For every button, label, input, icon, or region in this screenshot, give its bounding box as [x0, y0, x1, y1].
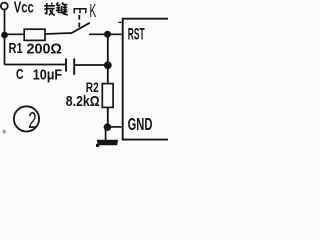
svg-text:10μF: 10μF	[33, 66, 62, 82]
IC box (MCU)	[123, 19, 168, 140]
pin tick RST	[118, 21, 121, 23]
resistor R1	[24, 29, 45, 40]
wire Vcc to node A	[4, 10, 6, 36]
wire R1 to switch	[45, 33, 71, 34]
svg-text:GND: GND	[128, 116, 153, 135]
node A junction dot	[1, 32, 8, 39]
pushbutton actuator cap of K	[74, 9, 86, 14]
svg-text:K: K	[90, 1, 97, 22]
resistor R2	[102, 84, 113, 108]
svg-text:RST: RST	[128, 24, 145, 43]
svg-text:200Ω: 200Ω	[27, 41, 62, 57]
wire R2 to node D	[107, 107, 109, 127]
ground symbol	[97, 140, 117, 145]
svg-text:Vcc: Vcc	[14, 0, 34, 16]
svg-text:R1: R1	[9, 39, 23, 56]
wire capacitor to node C	[75, 64, 108, 66]
scan smudge	[3, 130, 6, 134]
label 按键 (pushbutton) hand-drawn glyphs	[44, 3, 55, 16]
switch K blade	[71, 23, 90, 34]
pushbutton actuator stem (dashed)	[78, 15, 80, 28]
wire node D down to ground	[105, 127, 107, 140]
wire left rail to capacitor C	[5, 64, 66, 66]
svg-text:2: 2	[28, 108, 36, 134]
svg-text:C: C	[16, 66, 24, 82]
wire node B down to R2	[107, 34, 109, 84]
node C junction dot	[104, 61, 112, 69]
wire node D to GND pin	[107, 126, 122, 128]
figure number circle 2	[14, 106, 39, 131]
wire switch to node B	[89, 33, 122, 35]
wire node A down left rail	[4, 35, 6, 65]
node D junction dot	[104, 123, 112, 131]
capacitor C plates	[65, 58, 67, 71]
svg-text:8.2kΩ: 8.2kΩ	[66, 93, 100, 109]
Vcc terminal circle	[1, 3, 8, 10]
wire node A to R1	[5, 33, 25, 35]
node B junction dot	[104, 31, 111, 38]
